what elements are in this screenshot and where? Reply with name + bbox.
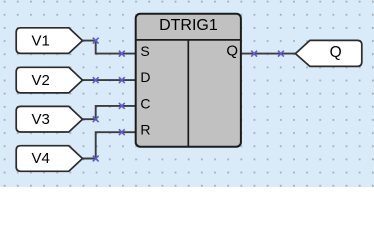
junction marker pin C: [119, 104, 124, 109]
svg-text:DTRIG1: DTRIG1: [159, 17, 218, 34]
column divider: [187, 40, 189, 147]
input flag V3: [16, 106, 82, 132]
junction marker pin D: [119, 78, 124, 83]
input flag V2: [16, 67, 82, 93]
junction marker V3 port: [93, 117, 98, 122]
junction marker pin S: [119, 51, 124, 56]
svg-text:D: D: [140, 69, 150, 85]
canvas background: [0, 0, 374, 187]
junction marker V1 port: [93, 38, 98, 43]
svg-text:V1: V1: [32, 32, 50, 49]
svg-text:V2: V2: [32, 72, 50, 89]
svg-text:S: S: [140, 43, 149, 59]
junction marker pin Q: [252, 51, 257, 56]
output flag Q: [295, 40, 361, 66]
junction marker V4 port: [93, 156, 98, 161]
title separator: [136, 39, 241, 41]
junction marker V2 port: [93, 78, 98, 83]
input flag V1: [16, 28, 82, 54]
wire net Q output: [241, 53, 296, 55]
junction marker pin R: [119, 130, 124, 135]
wire net V4 to R: [83, 132, 136, 158]
function block DTRIG1: [136, 14, 241, 147]
svg-text:V4: V4: [32, 150, 50, 167]
svg-text:R: R: [140, 122, 150, 138]
svg-text:C: C: [140, 95, 150, 111]
svg-text:Q: Q: [330, 44, 342, 61]
junction marker Q flag port: [279, 51, 284, 56]
wire net V3 to C: [83, 106, 136, 119]
svg-text:V3: V3: [32, 111, 50, 128]
input flag V4: [16, 146, 82, 172]
wire net V2 to D: [83, 79, 136, 81]
svg-text:Q: Q: [226, 43, 238, 60]
wire net V1 to S: [83, 41, 136, 54]
